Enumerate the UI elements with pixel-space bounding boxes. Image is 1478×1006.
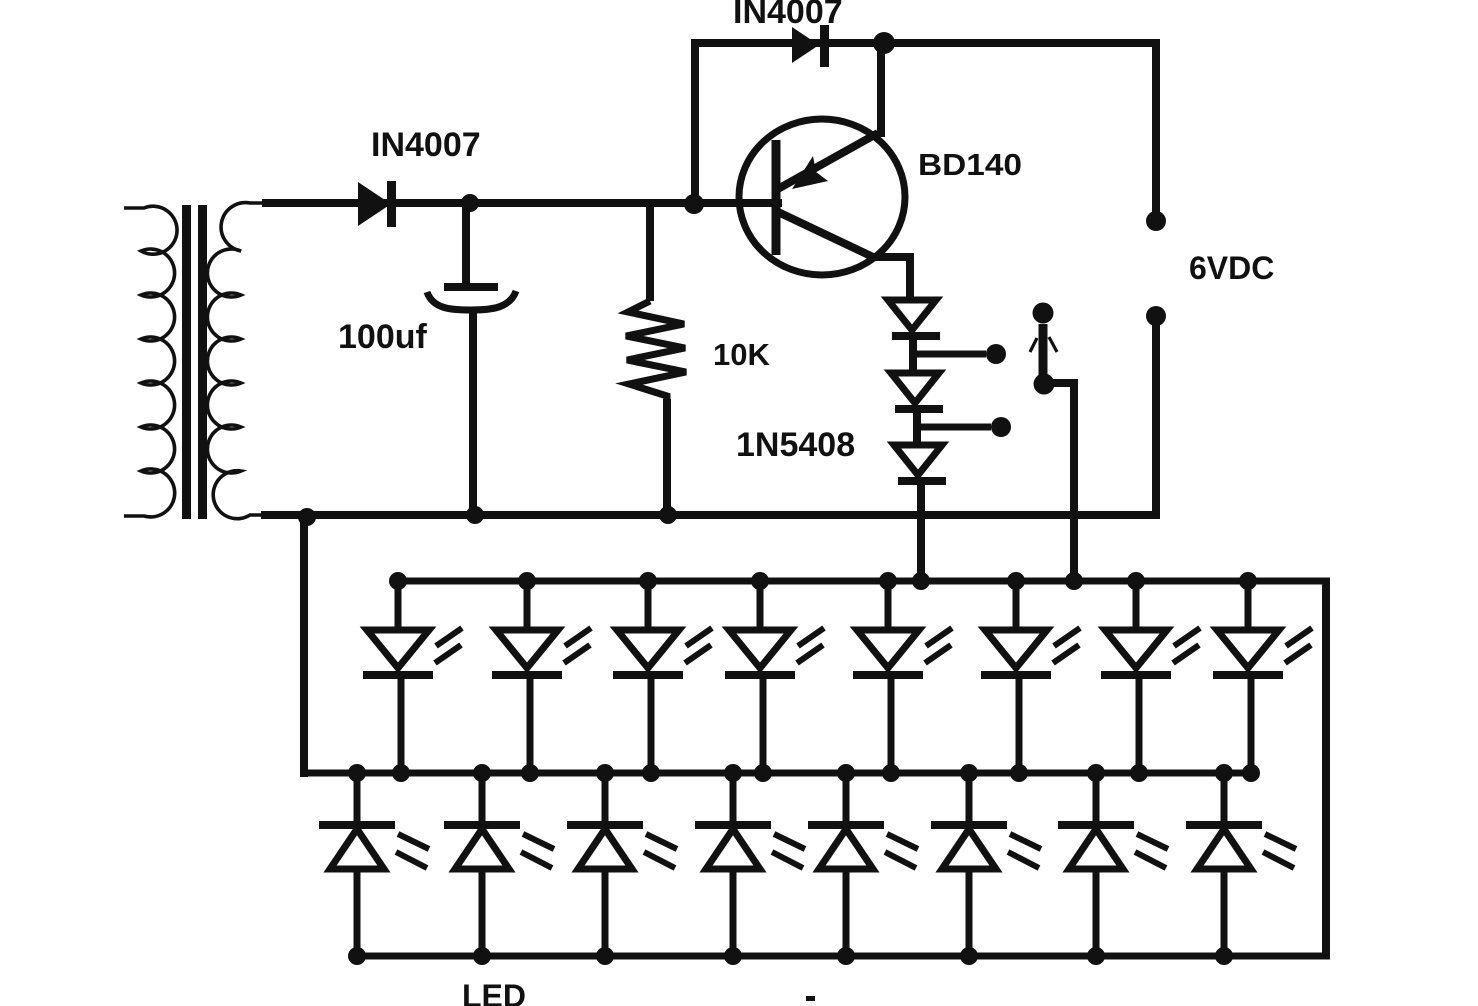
node: LED10 anode dot on bottom bus: [473, 947, 491, 965]
node: LED10 cathode dot on middle bus: [473, 764, 491, 782]
node: capacitor tap dot: [461, 194, 479, 212]
stray mark (clipped text): [806, 996, 815, 1001]
switch SW1 right barb: [1049, 337, 1057, 352]
wire: diode string down to LED bus: [917, 481, 925, 581]
svg-text:IN4007: IN4007: [371, 126, 481, 164]
node: LED12 anode dot on bottom bus: [724, 947, 742, 965]
node: tap 1 dot: [986, 344, 1006, 364]
transistor Q1 base bar: [772, 140, 781, 255]
transformer T1 secondary winding: [207, 203, 264, 519]
LED D9 (top row 4): [725, 581, 824, 773]
node: LED4 cathode dot on middle bus: [754, 764, 772, 782]
resistor R1 10K zigzag body: [626, 301, 686, 403]
wire: LED bottom bus: [349, 953, 1330, 960]
node: LED9 anode dot on bottom bus: [348, 947, 366, 965]
node: LED5 cathode dot on middle bus: [882, 764, 900, 782]
node: LED9 cathode dot on middle bus: [348, 764, 366, 782]
svg-text:6VDC: 6VDC: [1189, 250, 1274, 286]
LED D8 (top row 3): [613, 581, 712, 773]
LED D10 (top row 5): [853, 581, 952, 773]
wire: secondary top to diode node (main horizontal, y=203): [262, 199, 782, 207]
node: LED7 cathode dot on middle bus: [1130, 764, 1148, 782]
LED D13 (top row 8): [1213, 581, 1312, 773]
diode D1 IN4007 (left): [358, 182, 391, 226]
diode D2 IN4007 (top): [792, 27, 819, 63]
LED D12 (top row 7): [1101, 581, 1200, 773]
node: switch feed dot on LED bus: [1065, 572, 1083, 590]
node: LED13 cathode dot on middle bus: [837, 764, 855, 782]
wire: LED top bus: [396, 578, 1330, 585]
LED D17 (bottom row 4): [695, 773, 805, 956]
node: LED6 anode dot on top bus: [1007, 572, 1025, 590]
capacitor C1 bottom lead: [469, 307, 477, 517]
transformer T1 core: [182, 205, 191, 519]
node: capacitor bottom rail dot: [466, 506, 484, 524]
LED D19 (bottom row 6): [931, 773, 1041, 956]
wire: LED panel right vertical: [1322, 581, 1330, 959]
diode D4 1N5408: [891, 373, 939, 403]
node: LED8 anode dot on top bus: [1239, 572, 1257, 590]
node: LED16 cathode dot on middle bus: [1215, 764, 1233, 782]
node: LED4 anode dot on top bus: [751, 572, 769, 590]
node: tap 2 dot: [991, 417, 1011, 437]
wire: right vertical lower: [1152, 316, 1160, 519]
diode D3 1N5408: [888, 300, 936, 330]
svg-text:1N5408: 1N5408: [736, 426, 855, 464]
wire: left vertical down to middle bus: [300, 515, 308, 777]
node: LED12 cathode dot on middle bus: [724, 764, 742, 782]
node: LED13 anode dot on bottom bus: [837, 947, 855, 965]
svg-text:100uf: 100uf: [338, 318, 427, 356]
node: battery top terminal dot: [1146, 211, 1166, 231]
wire: D4 to D5: [913, 409, 921, 445]
node: LED16 anode dot on bottom bus: [1215, 947, 1233, 965]
node: LED3 anode dot on top bus: [639, 572, 657, 590]
svg-text:LED: LED: [462, 978, 526, 1006]
wire: bottom rail of top circuit (y=515): [261, 511, 1160, 519]
transistor Q1 emitter line: [776, 133, 878, 190]
resistor R1 top lead: [646, 203, 654, 301]
resistor R1 bottom lead: [663, 399, 671, 517]
capacitor C1 top plate: [444, 283, 498, 291]
switch SW1 bottom contact: [1034, 374, 1055, 395]
tap wire 1: [913, 351, 986, 358]
node: LED1 anode dot on top bus: [389, 572, 407, 590]
LED D18 (bottom row 5): [808, 773, 918, 956]
node: LED14 anode dot on bottom bus: [960, 947, 978, 965]
wire: LED middle bus: [301, 770, 1252, 777]
LED D16 (bottom row 3): [567, 773, 677, 956]
LED D6 (top row 1): [363, 581, 462, 773]
node: LED15 anode dot on bottom bus: [1087, 947, 1105, 965]
LED D21 (bottom row 8): [1186, 773, 1296, 956]
wire: emitter vertical to top branch: [877, 43, 885, 137]
tap wire 2: [917, 424, 991, 431]
wire: top branch left vertical: [691, 43, 699, 203]
node: LED11 cathode dot on middle bus: [596, 764, 614, 782]
LED D15 (bottom row 2): [444, 773, 554, 956]
svg-text:10K: 10K: [713, 337, 770, 372]
node: LED15 cathode dot on middle bus: [1087, 764, 1105, 782]
node: top junction dot: [873, 32, 895, 54]
LED D20 (bottom row 7): [1058, 773, 1168, 956]
node: LED2 cathode dot on middle bus: [521, 764, 539, 782]
node: resistor bottom rail dot: [659, 506, 677, 524]
node: LED11 anode dot on bottom bus: [596, 947, 614, 965]
node: LED14 cathode dot on middle bus: [960, 764, 978, 782]
capacitor C1 bottom plate (curved): [427, 291, 516, 310]
switch SW1 top contact: [1033, 303, 1054, 324]
node: LED5 anode dot on top bus: [879, 572, 897, 590]
node: LED7 anode dot on top bus: [1127, 572, 1145, 590]
svg-text:IN4007: IN4007: [733, 0, 843, 31]
wire: switch to LED bus: [1044, 383, 1074, 581]
wire: top branch horizontal (y=43): [691, 39, 1160, 47]
transistor Q1 collector line: [776, 211, 873, 257]
node: LED1 cathode dot on middle bus: [392, 764, 410, 782]
capacitor C1 top lead: [462, 203, 470, 287]
LED D11 (top row 6): [981, 581, 1080, 773]
transistor Q1 BD140 circle: [739, 119, 905, 275]
node: battery bottom terminal dot: [1146, 306, 1166, 326]
node: LED3 cathode dot on middle bus: [642, 764, 660, 782]
diode D5 1N5408: [894, 445, 942, 475]
node: LED feed dot on rail: [298, 508, 316, 526]
wire: D3 to D4: [909, 336, 917, 373]
node: LED2 anode dot on top bus: [518, 572, 536, 590]
switch SW1 left barb: [1030, 338, 1037, 352]
transformer T1 primary winding: [124, 206, 177, 517]
node: base junction dot: [684, 194, 704, 214]
wire: right vertical upper (battery +): [1152, 39, 1160, 213]
switch SW1 actuator bar: [1039, 324, 1048, 382]
svg-text:BD140: BD140: [918, 147, 1022, 182]
LED D7 (top row 2): [492, 581, 591, 773]
wire: collector to diode string: [869, 253, 910, 261]
node: LED8 cathode dot on middle bus: [1242, 764, 1260, 782]
node: diode-string feed dot on LED bus: [912, 572, 930, 590]
node: LED6 cathode dot on middle bus: [1010, 764, 1028, 782]
transistor Q1 emitter arrow: [792, 156, 828, 189]
LED D14 (bottom row 1): [319, 773, 429, 956]
